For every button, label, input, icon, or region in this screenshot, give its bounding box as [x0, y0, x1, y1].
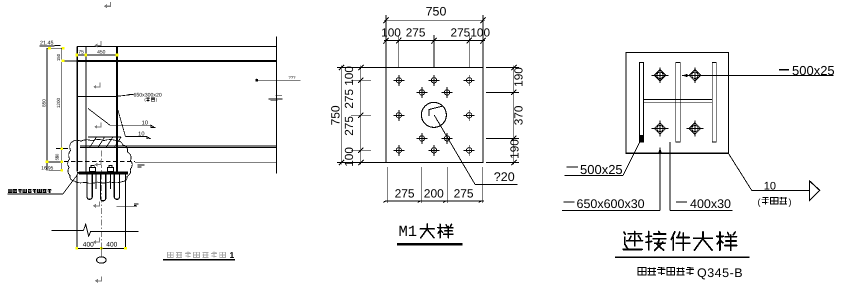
column left flange inner line	[85, 47, 87, 172]
bolts	[652, 68, 669, 84]
anchor base plate	[79, 171, 128, 174]
svg-text:75: 75	[78, 50, 84, 56]
svg-text:275: 275	[395, 186, 415, 200]
svg-text:370: 370	[511, 105, 525, 125]
beam end foot tick	[275, 95, 281, 97]
svg-text:190: 190	[511, 67, 525, 87]
svg-text:1: 1	[230, 250, 235, 260]
top dim arrows	[383, 17, 388, 23]
svg-text:275: 275	[451, 25, 471, 39]
subtitle 钢材的牌号为 Q345-B	[638, 268, 646, 275]
axis bubble circle	[97, 257, 107, 263]
svg-text:16.95: 16.95	[41, 166, 53, 172]
pedestal verticals	[76, 175, 78, 249]
weld note 10 其余同 with arrow	[728, 153, 751, 190]
top overall dim 750	[384, 19, 485, 21]
left dim vertical line 1	[46, 48, 48, 170]
column stiffener	[77, 95, 117, 97]
svg-text:450: 450	[97, 50, 106, 56]
top chain dim line	[384, 40, 485, 42]
bottom-left embed label	[8, 189, 12, 192]
svg-text:100: 100	[342, 147, 356, 167]
leader to top 500x25	[682, 75, 834, 77]
middle vertical plate 500x25	[676, 63, 681, 142]
horizontal plate 400x30	[644, 98, 713, 100]
weld leader 2	[118, 110, 126, 137]
svg-text:10: 10	[142, 120, 148, 126]
right vertical plate 500x25	[712, 63, 716, 142]
svg-text:100: 100	[342, 66, 356, 86]
svg-text:10: 10	[764, 180, 776, 192]
svg-text:750: 750	[426, 5, 447, 19]
bottom extension lines	[386, 167, 388, 203]
elevation marks right of plate	[137, 164, 144, 166]
column right flange	[116, 47, 118, 172]
svg-text:850: 850	[42, 99, 47, 107]
svg-text:10: 10	[138, 132, 144, 138]
svg-text:1200: 1200	[56, 97, 61, 108]
hatch strokes on connection plate	[90, 137, 97, 147]
right chain dim 190/370/190	[513, 66, 515, 165]
svg-text:???: ???	[289, 75, 297, 80]
bolt holes diamond	[416, 87, 427, 98]
svg-text:100: 100	[470, 25, 490, 39]
title 连接件大样	[623, 232, 642, 250]
right extension ticks	[486, 67, 519, 69]
svg-text:500x25: 500x25	[792, 63, 835, 78]
top beam thin line	[77, 46, 276, 48]
svg-text:650x600x30: 650x600x30	[577, 197, 645, 211]
bolt holes outer	[393, 75, 404, 86]
svg-text:M1: M1	[399, 223, 418, 241]
svg-text:150: 150	[56, 53, 61, 61]
section triangle arrow	[810, 181, 820, 201]
top extension lines	[385, 15, 387, 68]
top tick of left dims	[47, 47, 63, 49]
M1 base plate outline	[386, 68, 483, 163]
svg-text:500x25: 500x25	[580, 162, 623, 177]
svg-text:Q345-B: Q345-B	[697, 266, 743, 280]
anchor bolt nut left	[89, 168, 95, 172]
left dim arrows	[339, 65, 344, 70]
bottom dim line 275/200/275	[385, 200, 484, 202]
label leader to plate	[63, 173, 79, 194]
left label 500x25	[566, 166, 578, 168]
weld leader 1	[88, 109, 110, 126]
stiffener label leader	[117, 95, 132, 97]
left plate black fill mark	[640, 135, 644, 142]
center hole big circle	[421, 102, 446, 127]
break dashes on beam end	[269, 98, 283, 100]
top beam thick flange	[77, 60, 276, 62]
svg-text:200: 200	[424, 186, 444, 200]
label 400x30	[676, 201, 687, 203]
label 650x600x30	[564, 201, 575, 203]
svg-text:400: 400	[83, 241, 94, 248]
svg-text:275: 275	[342, 116, 356, 136]
svg-text:190: 190	[508, 139, 522, 159]
left overall dim 750	[340, 66, 342, 165]
anchor bolt nut right	[107, 168, 113, 172]
column left cover line	[76, 47, 78, 172]
svg-text:(: (	[758, 197, 761, 207]
svg-text:400: 400	[106, 241, 117, 248]
leader to ?20	[434, 115, 475, 184]
top small dim line 75/450	[77, 54, 117, 56]
left extension ticks	[337, 67, 386, 69]
svg-text:): )	[789, 197, 792, 207]
svg-text:275: 275	[342, 89, 356, 109]
break line with zigzag	[51, 229, 83, 231]
svg-text:50: 50	[55, 153, 60, 158]
svg-text:100: 100	[381, 25, 401, 39]
lower beam top flange double line	[80, 145, 276, 147]
bottom dim 400 400	[77, 247, 126, 249]
svg-text:21.45: 21.45	[40, 40, 54, 46]
left vertical plate 500x25	[640, 63, 644, 142]
left title: 梁柱交接处大样 1	[168, 252, 174, 257]
left chain dim	[360, 66, 362, 165]
hook polyline inside circle	[429, 106, 442, 116]
left dim vertical line 2	[61, 48, 63, 171]
svg-text:275: 275	[454, 186, 474, 200]
revision cloud around joint	[68, 139, 133, 183]
beam end vertical	[275, 37, 277, 174]
lower beam bottom flange	[135, 161, 276, 163]
short rods between	[95, 175, 97, 190]
gray return marks	[106, 2, 111, 6]
svg-text:400x30: 400x30	[690, 197, 731, 211]
svg-text:750: 750	[329, 105, 343, 125]
svg-text:275: 275	[406, 25, 426, 39]
tick at beam flange level	[62, 60, 77, 62]
elevation leader top right	[256, 79, 258, 81]
lower ticks on left dims	[56, 148, 68, 150]
connector base plate square	[626, 52, 729, 153]
column centerline dash-dot	[100, 151, 102, 249]
svg-text:?20: ?20	[494, 170, 515, 184]
anchor rods with hooks	[86, 175, 88, 195]
